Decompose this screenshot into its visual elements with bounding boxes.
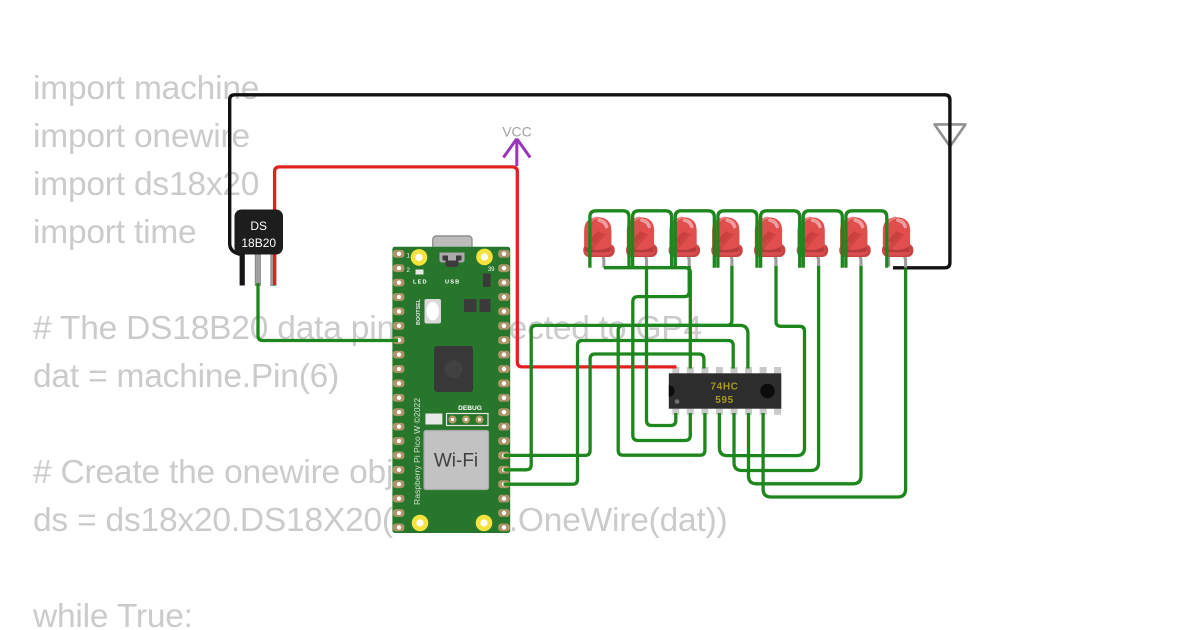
LED6 red 5mm [797, 217, 828, 267]
power symbol VCC (purple arrow) [502, 124, 532, 167]
svg-text:DS: DS [250, 219, 267, 233]
svg-text:VCC: VCC [502, 124, 532, 140]
wire: black GND wire from DS18B20 to GND symbol and LED8 cathode [230, 95, 950, 268]
LED2 red 5mm [626, 217, 657, 267]
wire: green jumper LED2 anode to LED3 anode [633, 211, 672, 268]
LED7 red 5mm [839, 217, 870, 267]
wire: red VCC wire from DS18B20 VDD via VCC symbol to 74HC595 pin 16 [275, 167, 677, 367]
wire: green jumper LED7 anode to LED8 anode [846, 211, 887, 268]
svg-text:Raspberry Pi Pico W ©2022: Raspberry Pi Pico W ©2022 [412, 398, 422, 505]
svg-text:39: 39 [488, 267, 495, 273]
DS18B20 sensor legs (GND, DATA, VDD) [240, 253, 276, 286]
board: Raspberry Pi Pico W [392, 236, 510, 533]
LED1 red 5mm [583, 217, 614, 267]
svg-text:DEBUG: DEBUG [458, 405, 482, 412]
svg-text:ds = ds18x20.DS18X20(onewire.O: ds = ds18x20.DS18X20(onewire.OneWire(dat… [33, 502, 728, 539]
wire: green 74HC595 QD pin3 to LED4 [618, 266, 732, 455]
svg-text:BOOTSEL: BOOTSEL [416, 298, 422, 325]
ground symbol GND [935, 124, 966, 146]
svg-text:# Create the onewire object: # Create the onewire object [33, 454, 438, 491]
svg-text:import time: import time [33, 214, 196, 251]
node: background source-code text [32, 70, 728, 630]
wire: green Pico pad to 74HC595 DS pin 14 [504, 354, 704, 455]
wire: green 74HC595 QF pin5 to LED6 [734, 266, 819, 471]
svg-text:USB: USB [445, 280, 460, 286]
wire: green 74HC595 QA pin15 to LED1 [604, 268, 691, 369]
wire: green Pico pad to 74HC595 SH_CP pin 11 [504, 325, 748, 469]
wire: green Pico pad to 74HC595 ST_CP pin 12 [504, 341, 734, 485]
wire: green jumper LED3 anode to LED4 anode [675, 211, 714, 268]
svg-text:import onewire: import onewire [33, 118, 250, 155]
wire: green 74HC595 QE pin4 to LED5 [719, 266, 804, 456]
wire: green jumper LED4 anode to LED5 anode [718, 211, 757, 268]
svg-text:LED: LED [413, 280, 428, 286]
svg-text:595: 595 [715, 395, 734, 406]
wire: green 74HC595 QG pin6 to LED7 [749, 266, 862, 484]
wire: green jumper LED1 anode to LED2 anode [590, 211, 629, 268]
LED5 red 5mm [754, 217, 785, 267]
IC U1 74HC595 shift register [669, 367, 782, 415]
temperature sensor DS18B20 body [235, 210, 284, 255]
wire: green 74HC595 QC pin2 to LED3 [633, 266, 691, 441]
wire: green 74HC595 QB pin1 to LED2 [647, 268, 676, 426]
svg-text:import machine: import machine [33, 70, 259, 107]
LED4 red 5mm [711, 217, 742, 267]
svg-text:import ds18x20: import ds18x20 [33, 166, 259, 203]
wire: green jumper LED6 anode to LED7 anode [803, 211, 842, 268]
wire: green DS18B20 DATA to Pico GP6 [258, 283, 398, 341]
svg-text:74HC: 74HC [711, 382, 739, 393]
svg-text:18B20: 18B20 [241, 236, 276, 250]
svg-text:while True:: while True: [32, 598, 193, 630]
LED3 red 5mm [669, 217, 700, 267]
wire: green jumper LED5 anode to LED6 anode [761, 211, 800, 268]
wire: green 74HC595 QH pin7 to LED8 [763, 269, 906, 498]
svg-text:Wi-Fi: Wi-Fi [434, 451, 478, 472]
LED8 red 5mm [882, 217, 913, 267]
svg-text:dat = machine.Pin(6): dat = machine.Pin(6) [33, 358, 339, 395]
